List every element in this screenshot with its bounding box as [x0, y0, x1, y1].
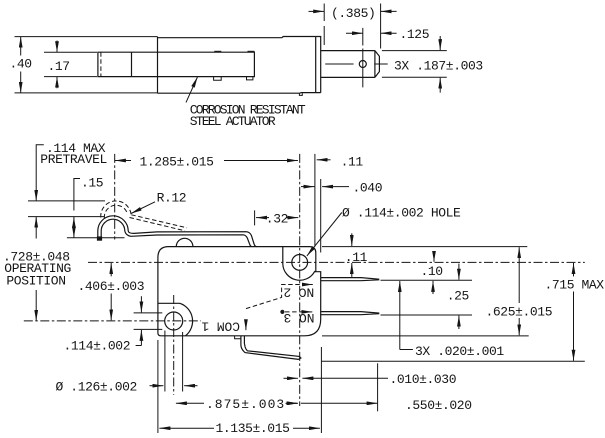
TOP VIEW DRAWING — [10, 4, 483, 129]
svg-text:PRETRAVEL: PRETRAVEL — [40, 152, 107, 167]
lever free position dashed outer arc — [101, 201, 131, 218]
hole callout leader — [307, 213, 342, 256]
svg-text:1.285±.015: 1.285±.015 — [140, 154, 214, 169]
dimension .715 MAX — [545, 263, 605, 361]
horizontal centerline through top hole / operating position — [88, 261, 585, 263]
internal circuit arrow NC — [305, 284, 313, 286]
svg-text:Ø .114±.002 HOLE: Ø .114±.002 HOLE — [342, 206, 461, 221]
lever curl left leg — [98, 231, 101, 237]
plunger vertical centerline — [362, 28, 364, 88]
dimension .406±.003 — [78, 263, 145, 320]
plunger dome on body top — [176, 238, 193, 246]
extension line body right edge down — [320, 347, 322, 433]
svg-text:POSITION: POSITION — [6, 274, 65, 289]
svg-text:.010±.030: .010±.030 — [390, 372, 457, 387]
switch body (top view) — [158, 37, 321, 94]
svg-text:.40: .40 — [10, 56, 32, 71]
dimension 1.285±.015 — [115, 154, 298, 169]
dimension .040 — [301, 180, 382, 195]
dimension 3X .187 extension lines — [382, 51, 447, 78]
lever free position dashed lines — [130, 215, 188, 231]
internal circuit arrow NO — [304, 311, 312, 313]
hole diameter extension lines — [165, 331, 183, 392]
terminal bottom extension line — [321, 360, 584, 362]
blade terminal NC (upper right) — [321, 278, 380, 281]
dimension .125 — [346, 27, 429, 42]
shared up arrow at curl top — [35, 217, 37, 239]
svg-text:.715 MAX: .715 MAX — [545, 278, 605, 293]
dimension .010±.030 — [284, 372, 457, 387]
lever solid curl outer arc — [98, 216, 128, 231]
dimension .625±.015 — [486, 247, 553, 335]
svg-text:.114±.002: .114±.002 — [64, 339, 131, 354]
top-right mounting hole — [292, 255, 308, 271]
marking COM down arrow — [245, 323, 247, 331]
svg-text:.25: .25 — [447, 289, 469, 304]
svg-text:.040: .040 — [353, 180, 383, 195]
dimension .114±.002 — [64, 296, 142, 354]
internal circuit dashed line COM to NC — [246, 285, 309, 309]
svg-text:.875±.003: .875±.003 — [206, 397, 285, 412]
dimension Ø.126±.002 — [56, 380, 198, 395]
hole in plunger — [359, 61, 366, 68]
svg-text:.406±.003: .406±.003 — [78, 279, 145, 294]
svg-text:.11: .11 — [345, 250, 368, 265]
dimension .875±.003 — [176, 397, 298, 412]
dimension .550±.020 — [286, 398, 472, 413]
bottom-left mounting boss lobe — [158, 303, 193, 335]
switch body outline (side view) — [158, 247, 321, 336]
svg-text:COM 1: COM 1 — [201, 319, 240, 334]
vertical centerline through top hole — [299, 154, 301, 406]
svg-text:.125: .125 — [400, 27, 430, 42]
svg-text:(.385): (.385) — [331, 6, 375, 21]
dimension .17 — [48, 41, 70, 89]
dimension .15 bracket and arrows — [74, 176, 103, 238]
body bottom extension line right — [322, 335, 529, 337]
extension line body right edge — [320, 179, 322, 253]
small terminal tick below body bottom (top view) — [299, 93, 302, 95]
svg-text:NC 2: NC 2 — [283, 284, 314, 299]
plunger terminal (top view) — [321, 51, 380, 78]
curl vertical centerline — [114, 154, 116, 240]
dimension .17 extension lines — [44, 52, 97, 76]
arm bottom extension line — [67, 237, 125, 239]
svg-text:.17: .17 — [48, 59, 70, 74]
svg-text:1.135±.015: 1.135±.015 — [216, 421, 290, 436]
operating position lower arrow — [35, 290, 37, 321]
lever free position dashed inner arc — [104, 205, 127, 218]
extension line terminal tips — [377, 363, 379, 411]
bent common terminal (bottom) — [235, 336, 301, 359]
svg-text:.625±.015: .625±.015 — [486, 305, 553, 320]
lever actuator (top view) — [98, 51, 255, 80]
dimension (.385) — [309, 6, 397, 21]
corrosion resistant steel actuator label — [186, 77, 306, 129]
pretravel extension line (free position) — [28, 200, 105, 202]
dimension 3X .020±.001 leader — [400, 281, 505, 359]
dimension .11 at hole — [345, 233, 368, 277]
internal circuit dot — [280, 310, 284, 314]
BOTTOM SIDE VIEW DRAWING — [3, 141, 604, 436]
body top extension line right — [322, 246, 527, 248]
dimension 3X .187±.003 — [394, 36, 483, 93]
top-right mounting boss lobe — [283, 247, 316, 281]
svg-text:NO 3: NO 3 — [284, 310, 315, 325]
pretravel bracket — [36, 145, 44, 201]
terminal extension lines right — [381, 280, 473, 315]
hole vertical size extension lines — [134, 313, 163, 330]
svg-text:Ø .126±.002: Ø .126±.002 — [56, 380, 137, 395]
svg-text:.10: .10 — [421, 264, 443, 279]
svg-text:STEEL ACTUATOR: STEEL ACTUATOR — [190, 114, 276, 129]
curl top extension line — [28, 216, 105, 218]
dimension .11 upper right — [317, 154, 364, 169]
svg-text:3X .187±.003: 3X .187±.003 — [394, 59, 483, 74]
dimension .40 — [10, 37, 32, 93]
dimension .40 extension lines — [15, 37, 158, 93]
lever arm top edge — [128, 231, 257, 247]
svg-text:.32: .32 — [266, 211, 288, 226]
svg-text:.550±.020: .550±.020 — [405, 398, 472, 413]
bottom-left mounting hole — [165, 312, 183, 330]
dimension .10 — [421, 252, 443, 294]
svg-text:.11: .11 — [341, 154, 364, 169]
dimension .25 — [447, 264, 469, 329]
horizontal centerline through bottom hole — [24, 320, 201, 322]
R.12 label and leader — [131, 191, 186, 214]
dimension .32 — [255, 210, 299, 226]
lever solid curl inner arc — [101, 219, 125, 231]
lever arm bottom edge — [125, 231, 252, 247]
extension line boss right edge — [314, 154, 316, 247]
internal circuit dashed line to NO — [285, 311, 307, 313]
plunger horizontal centerline — [325, 63, 388, 65]
lever curl leg end cap — [97, 236, 102, 240]
dimension (.385) extension lines — [324, 4, 380, 49]
svg-text:.15: .15 — [81, 176, 103, 191]
extension line body left edge down — [157, 340, 159, 433]
svg-text:3X .020±.001: 3X .020±.001 — [415, 344, 504, 359]
dimension 1.135±.015 — [159, 421, 320, 436]
vertical centerline through bottom hole — [173, 295, 175, 395]
blade terminal NO (lower right) — [321, 312, 380, 315]
svg-text:R.12: R.12 — [157, 191, 187, 206]
